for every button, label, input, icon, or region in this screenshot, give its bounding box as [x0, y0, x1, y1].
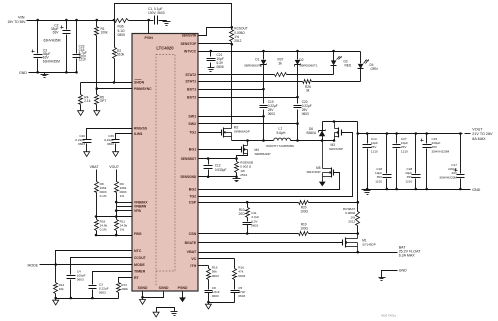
svg-text:SiR866ADP: SiR866ADP — [234, 130, 250, 134]
wire input ground rail — [29, 72, 77, 74]
node VBAT label — [90, 165, 100, 169]
capacitor C12 — [204, 159, 227, 177]
wire SENSTOP pin — [199, 43, 232, 45]
wire MODE line — [40, 263, 133, 266]
ground R14 open — [53, 299, 59, 306]
wire VIN rail — [27, 20, 149, 22]
wire TIMER line — [93, 272, 133, 285]
ground tie earth — [171, 311, 178, 316]
svg-text:2512: 2512 — [240, 173, 247, 177]
resistor R36 — [115, 19, 129, 38]
resistor R26 — [303, 80, 312, 93]
ground tie open — [153, 311, 159, 318]
resistor R9 — [115, 182, 127, 217]
resistor RCSBAT — [343, 203, 360, 234]
IC U1 LTC4020 body — [132, 34, 198, 292]
resistor R18 — [95, 217, 108, 237]
resistor R13 — [117, 283, 129, 299]
svg-text:0603: 0603 — [268, 112, 275, 116]
diode D6 — [307, 122, 326, 141]
svg-text:STAT2: STAT2 — [185, 73, 196, 77]
svg-text:PWM/SYNC: PWM/SYNC — [134, 87, 152, 91]
wire SENSBOT line — [199, 157, 238, 160]
capacitor C1 — [148, 7, 167, 24]
svg-text:BG1: BG1 — [189, 148, 196, 152]
ground C1 earth — [159, 21, 171, 26]
wire SW1 pin line — [199, 115, 265, 142]
wire PGND stub — [182, 292, 184, 296]
svg-text:B360A: B360A — [307, 131, 317, 135]
svg-text:SBR05060T1: SBR05060T1 — [244, 64, 262, 68]
svg-text:SENSVIN: SENSVIN — [182, 33, 197, 37]
svg-text:510k: 510k — [117, 52, 125, 56]
ground bottom right earth — [379, 276, 386, 281]
wire BST1 line — [199, 88, 265, 91]
svg-text:15V TO 55V: 15V TO 55V — [7, 20, 26, 24]
wire ITH line — [199, 265, 209, 267]
wire VC line — [199, 258, 235, 260]
wire ILIM line — [116, 134, 133, 140]
svg-text:SiR472DP: SiR472DP — [329, 147, 343, 151]
svg-text:0603: 0603 — [251, 224, 258, 228]
node VOUT terminal — [472, 127, 493, 141]
svg-text:0.1%: 0.1% — [100, 227, 107, 231]
svg-text:PGND: PGND — [178, 286, 188, 290]
node MODE terminal — [28, 263, 39, 267]
transistor M3 — [329, 122, 343, 152]
svg-text:SiR472DP: SiR472DP — [306, 170, 320, 174]
wire TG2 line — [199, 133, 353, 197]
svg-text:0603: 0603 — [238, 294, 245, 298]
ground RSENSB earth — [233, 177, 241, 182]
wire SENSVIN pin — [199, 28, 232, 36]
svg-text:ITH: ITH — [190, 264, 196, 268]
capacitor C3b — [89, 282, 109, 299]
svg-text:BGATE: BGATE — [185, 241, 197, 245]
wire VFB line — [117, 210, 133, 212]
svg-text:D1: D1 — [255, 57, 259, 61]
svg-text:LTC4020: LTC4020 — [156, 46, 174, 51]
svg-text:1210: 1210 — [79, 58, 86, 62]
svg-text:ILIM1: ILIM1 — [134, 132, 143, 136]
ground PGND fill — [179, 296, 186, 303]
svg-text:1210: 1210 — [401, 149, 408, 153]
wire output ground rail — [362, 189, 471, 191]
svg-text:RNG/SS: RNG/SS — [134, 127, 148, 131]
svg-text:STAT1: STAT1 — [185, 79, 196, 83]
wire VOUT rail — [358, 132, 471, 135]
svg-text:2512: 2512 — [348, 220, 355, 224]
svg-text:GND: GND — [399, 269, 407, 273]
svg-text:100k: 100k — [101, 30, 109, 34]
resistor R8 — [95, 182, 107, 218]
LED D4 — [358, 52, 379, 82]
wire CSN line — [199, 232, 360, 235]
svg-text:D2: D2 — [300, 58, 304, 62]
capacitor C3 — [32, 19, 61, 74]
wire battery column — [357, 134, 359, 203]
capacitor C17 — [439, 134, 464, 191]
capacitor C8 — [205, 280, 220, 303]
svg-text:SW1: SW1 — [188, 115, 196, 119]
resistor R20 — [299, 201, 309, 214]
resistor R11 — [115, 217, 128, 237]
svg-text:1210: 1210 — [371, 149, 378, 153]
svg-text:SENSTOP: SENSTOP — [180, 42, 196, 46]
resistor RSENSB — [235, 159, 254, 178]
capacitor C2 — [43, 19, 70, 74]
wire INTVCC rail — [199, 50, 361, 53]
ground output earth — [364, 190, 371, 195]
node GND terminal bottom right — [399, 269, 407, 273]
capacitor C11 — [243, 211, 260, 234]
capacitor C39 — [104, 134, 119, 149]
svg-text:SENSGND: SENSGND — [180, 175, 196, 179]
svg-text:GND: GND — [19, 71, 27, 75]
capacitor C21 — [207, 52, 224, 70]
svg-text:WÜRTH 744355056: WÜRTH 744355056 — [266, 144, 294, 148]
svg-text:0603: 0603 — [302, 112, 309, 116]
wire VOUT divider top — [116, 170, 118, 182]
capacitor C18 — [375, 134, 392, 191]
wire CCOUT line — [71, 258, 133, 275]
svg-text:10k: 10k — [59, 287, 64, 291]
svg-text:20Ω: 20Ω — [239, 212, 246, 216]
svg-text:FBG: FBG — [134, 232, 142, 236]
svg-text:100k: 100k — [121, 287, 128, 291]
svg-text:0603: 0603 — [238, 274, 245, 278]
wire GND stub bottom right — [382, 271, 398, 277]
svg-text:21V TO 28V: 21V TO 28V — [472, 132, 493, 136]
wire VFBMAX line — [117, 202, 133, 204]
wire BG2 line — [199, 173, 340, 190]
resistor R5 — [95, 89, 107, 109]
svg-text:Si7145DP: Si7145DP — [362, 243, 376, 247]
ground C21 earth — [208, 67, 215, 72]
svg-text:GND: GND — [472, 188, 481, 192]
ground C40 open — [84, 150, 90, 157]
resistor R10 — [239, 203, 250, 218]
svg-text:0603: 0603 — [77, 278, 84, 282]
svg-text:100Ω: 100Ω — [300, 210, 308, 214]
capacitor C40 — [75, 134, 91, 149]
svg-text:VOUT: VOUT — [109, 165, 120, 169]
LED D3 — [331, 52, 352, 75]
wire BG1 line — [199, 149, 242, 151]
svg-text:RT: RT — [134, 276, 140, 280]
capacitor C14 — [363, 134, 379, 191]
svg-text:MODE: MODE — [28, 263, 39, 267]
svg-text:OPT: OPT — [100, 99, 107, 103]
inductor L1 — [266, 127, 294, 149]
resistor R37 — [275, 58, 287, 77]
svg-text:0603: 0603 — [212, 274, 219, 278]
svg-text:0603: 0603 — [99, 290, 106, 294]
svg-text:TG1: TG1 — [189, 131, 196, 135]
resistor R1 — [95, 19, 109, 89]
svg-text:NTC: NTC — [134, 249, 142, 253]
resistor R16 — [233, 259, 246, 280]
svg-text:0603: 0603 — [212, 294, 219, 298]
wire CSP line — [199, 201, 360, 204]
svg-text:0603: 0603 — [78, 142, 85, 146]
svg-text:INTVCC: INTVCC — [184, 49, 197, 53]
ground input earth — [41, 73, 49, 78]
svg-text:VC: VC — [191, 257, 196, 261]
node VIN input terminal — [7, 15, 26, 25]
svg-text:CSN: CSN — [189, 232, 197, 236]
svg-text:5.6µH: 5.6µH — [277, 131, 286, 135]
wire BGATE line — [199, 242, 343, 244]
wire SENSGND line — [199, 176, 238, 179]
capacitor C20 — [294, 98, 312, 124]
wire VBAT divider top — [96, 170, 98, 182]
svg-text:BST1: BST1 — [187, 87, 196, 91]
svg-text:CCOUT: CCOUT — [134, 256, 146, 260]
svg-text:100V, 0603: 100V, 0603 — [148, 11, 165, 15]
wire SENSVIN top link — [113, 4, 232, 28]
capacitor C23 C16 — [73, 19, 87, 74]
svg-text:SHDN: SHDN — [134, 81, 145, 85]
svg-text:BST2: BST2 — [187, 95, 196, 99]
IC pin labels left — [134, 36, 153, 280]
resistor RCSOUT — [230, 26, 248, 46]
wire TG1 line — [199, 132, 222, 134]
wire RT line — [119, 278, 133, 283]
svg-text:VBAT: VBAT — [90, 165, 100, 169]
svg-text:SGND: SGND — [138, 286, 148, 290]
transistor M5 — [306, 141, 333, 181]
resistor R4 — [79, 83, 91, 109]
wire SW2 pin line — [199, 122, 299, 142]
wire SHDN line — [81, 82, 133, 84]
svg-text:VFB: VFB — [134, 209, 141, 213]
capacitor C5 — [231, 280, 246, 303]
capacitor C4 — [67, 270, 86, 300]
capacitor C15 — [421, 134, 450, 191]
svg-text:GRN: GRN — [371, 67, 379, 71]
svg-text:MODE: MODE — [134, 263, 145, 267]
wire RNGSS line — [87, 129, 133, 140]
wire FBG line — [97, 234, 133, 237]
svg-text:SW2: SW2 — [188, 122, 196, 126]
svg-text:8A MAX: 8A MAX — [472, 137, 486, 141]
svg-text:2512: 2512 — [234, 39, 241, 43]
svg-text:0.1%: 0.1% — [100, 194, 107, 198]
svg-text:RED: RED — [345, 63, 352, 67]
svg-text:0603: 0603 — [107, 142, 114, 146]
ground M5 fill — [319, 181, 326, 187]
svg-text:1210: 1210 — [375, 179, 382, 183]
svg-text:3k: 3k — [279, 61, 283, 65]
wire STAT2 line — [199, 74, 334, 76]
svg-text:4020 TA01a: 4020 TA01a — [381, 314, 396, 318]
svg-text:SGND: SGND — [159, 286, 169, 290]
ground SGND open — [140, 298, 146, 305]
node GND input terminal — [19, 71, 27, 75]
svg-text:CSP: CSP — [189, 201, 197, 205]
resistor R19 — [299, 223, 309, 236]
svg-text:SENSBOT: SENSBOT — [181, 157, 196, 161]
svg-text:0.033µF: 0.033µF — [215, 168, 227, 172]
svg-text:BG2: BG2 — [189, 187, 196, 191]
resistor R14 — [54, 265, 65, 300]
node VOUT label divider — [109, 165, 120, 169]
wire SGND link — [141, 292, 163, 299]
svg-text:TG2: TG2 — [189, 194, 196, 198]
transistor M2 — [222, 123, 250, 141]
note corner — [381, 314, 396, 318]
diode D2 — [295, 52, 318, 98]
svg-text:TIMER: TIMER — [134, 269, 146, 273]
svg-text:1%: 1% — [120, 227, 125, 231]
wire mid divider link — [97, 215, 133, 218]
ground C39 open — [113, 150, 119, 157]
svg-text:0806: 0806 — [217, 65, 224, 69]
svg-text:35HVH220M: 35HVH220M — [432, 149, 450, 153]
IC pin labels right — [180, 33, 197, 268]
wire BST2 line — [199, 96, 299, 99]
capacitor C28 — [405, 134, 420, 191]
wire VOUT top rail — [323, 120, 360, 135]
transistor M4 — [237, 141, 271, 159]
svg-text:35HVH220M: 35HVH220M — [439, 175, 457, 179]
svg-text:2.1k: 2.1k — [84, 99, 91, 103]
svg-text:63HVH35M: 63HVH35M — [43, 38, 60, 42]
wire PVIN drop — [147, 19, 150, 34]
svg-text:100Ω: 100Ω — [300, 227, 308, 231]
ground R5 open — [94, 109, 100, 116]
transistor M1 — [343, 234, 376, 253]
svg-text:63V: 63V — [53, 31, 60, 35]
resistor R15 — [207, 266, 219, 280]
wire SGND PGND tie — [157, 308, 175, 311]
capacitor C27 — [393, 134, 409, 191]
wire PWM line — [96, 87, 133, 90]
node GND terminal right — [472, 188, 481, 192]
ground R4 open — [78, 109, 84, 116]
diode D1 — [244, 52, 267, 90]
svg-text:SBR05060T1: SBR05060T1 — [300, 64, 318, 68]
ground comp open — [205, 303, 211, 310]
wire NTC line — [56, 251, 133, 265]
svg-text:0805: 0805 — [118, 33, 126, 37]
IC pin labels bottom — [138, 286, 188, 290]
node BAT terminal — [399, 246, 422, 258]
svg-text:6.3A MAX: 6.3A MAX — [399, 254, 416, 258]
wire VFBMIN line — [117, 206, 133, 208]
capacitor C19 — [260, 90, 278, 117]
svg-text:SiR866ADP: SiR866ADP — [255, 152, 271, 156]
wire STAT1 line — [199, 81, 361, 83]
wire VIN feed to M2 — [231, 45, 233, 123]
svg-text:3k: 3k — [306, 89, 310, 93]
wire SW1 node line — [232, 139, 274, 142]
svg-text:1%: 1% — [120, 194, 125, 198]
wire comp ground link — [207, 301, 234, 304]
wire VBAT battery line — [199, 251, 398, 254]
wire SW2 node line — [291, 139, 336, 142]
svg-text:VOUT: VOUT — [472, 127, 483, 131]
svg-text:1210: 1210 — [405, 179, 412, 183]
resistor R2 — [113, 21, 125, 84]
svg-text:63HVH35M: 63HVH35M — [43, 59, 60, 63]
svg-text:VBAT: VBAT — [187, 250, 197, 254]
svg-text:VIN: VIN — [18, 15, 25, 20]
wire mode ground rail — [56, 298, 119, 300]
svg-text:PVIN: PVIN — [145, 36, 154, 40]
